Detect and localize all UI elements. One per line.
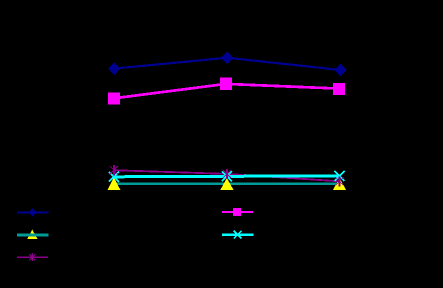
series 4 marker point 1 (X) xyxy=(109,172,119,182)
series 3 line (teal, yellow triangles) xyxy=(114,182,340,185)
legend entry 1 left: navy diamond xyxy=(17,208,48,216)
legend entry 2 left: teal line with yellow triangle xyxy=(17,230,48,239)
series 3 marker point 3 (yellow triangle) xyxy=(333,178,346,190)
series 1 marker point 1 (diamond) xyxy=(108,63,120,76)
legend entry 2 right: cyan X xyxy=(222,231,254,239)
series 2 marker point 3 (square) xyxy=(333,83,345,95)
series 5 marker point 3 (asterisk) xyxy=(339,176,341,186)
series 5 line (purple, asterisks) xyxy=(114,170,340,181)
series 5 marker point 1 (asterisk) xyxy=(113,165,115,175)
series 1 marker point 3 (diamond) xyxy=(335,64,347,77)
series 1 marker point 2 (diamond) xyxy=(221,52,233,65)
series 1 line (navy, diamonds) xyxy=(114,58,340,70)
series 5 marker point 2 (asterisk) xyxy=(226,169,228,179)
series 3 marker point 1 (yellow triangle) xyxy=(107,177,120,190)
legend entry 3 left: purple asterisk xyxy=(17,253,48,261)
series 2 marker point 1 (square) xyxy=(108,93,120,105)
series 3 marker point 2 (yellow triangle) xyxy=(220,178,233,190)
series 4 marker point 3 (X) xyxy=(335,171,345,181)
series 4 line (cyan, X markers) xyxy=(114,175,340,179)
series 4 marker point 2 (X) xyxy=(222,171,232,181)
series 2 line (magenta, squares) xyxy=(114,84,339,98)
legend entry 1 right: magenta square xyxy=(222,208,253,216)
series 2 marker point 2 (square) xyxy=(220,78,232,90)
